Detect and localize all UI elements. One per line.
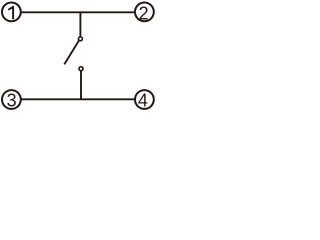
wire: bottom rail from terminal 3 to terminal 4 — [21, 98, 134, 100]
wire: stub from lower contact down to bottom rail — [80, 71, 82, 99]
wire: top rail from terminal 1 to terminal 2 — [21, 11, 134, 13]
lower contact circle — [79, 67, 83, 71]
terminal 2 — [135, 3, 154, 24]
svg-text:4: 4 — [138, 90, 148, 110]
svg-text:3: 3 — [7, 90, 17, 110]
switch lever (open) — [64, 41, 79, 65]
upper contact circle — [78, 37, 82, 41]
terminal 4 — [135, 90, 154, 110]
svg-text:2: 2 — [139, 3, 149, 23]
terminal 3 — [2, 90, 21, 110]
wire: stub from top rail down to upper contact — [79, 12, 81, 36]
terminal 1 — [2, 3, 21, 22]
